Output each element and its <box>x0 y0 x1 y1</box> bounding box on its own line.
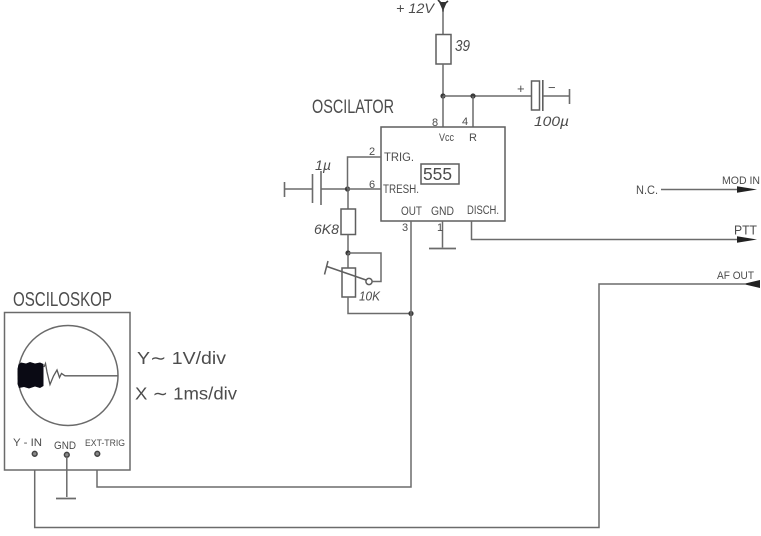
wire Vcc rail horizontal <box>443 95 531 97</box>
wire wiper to node2 loop <box>348 253 381 282</box>
wire node2 to pot <box>347 253 349 268</box>
oscilloscope screen circle <box>18 326 118 426</box>
svg-text:8: 8 <box>432 117 438 129</box>
node junction pot top <box>345 250 350 255</box>
resistor 6K8 <box>341 209 356 235</box>
svg-text:Vcc: Vcc <box>439 132 454 144</box>
svg-text:Y - IN: Y - IN <box>13 437 42 449</box>
svg-text:3: 3 <box>402 222 408 234</box>
svg-text:GND: GND <box>54 440 76 452</box>
wire scope GND <box>66 457 68 497</box>
node junction Vcc rail left <box>440 93 445 98</box>
svg-text:100µ: 100µ <box>534 113 569 129</box>
svg-text:Y∼ 1V/div: Y∼ 1V/div <box>137 348 226 368</box>
potentiometer wiper arrow <box>325 261 373 285</box>
svg-text:10K: 10K <box>359 289 381 304</box>
wire AF OUT to Y-IN <box>35 284 746 528</box>
terminal Y-IN <box>32 451 37 456</box>
svg-text:1µ: 1µ <box>315 157 331 173</box>
svg-text:AF OUT: AF OUT <box>717 270 754 282</box>
svg-text:TRESH.: TRESH. <box>383 184 419 196</box>
svg-text:6: 6 <box>369 179 375 191</box>
wire pin1 GND <box>442 221 444 248</box>
svg-text:GND: GND <box>431 206 454 218</box>
svg-text:OUT: OUT <box>401 206 422 218</box>
wire pin3 OUT down <box>410 221 412 314</box>
wire tresh <box>348 188 382 190</box>
svg-text:EXT-TRIG: EXT-TRIG <box>85 438 125 448</box>
oscilloscope box <box>5 313 131 471</box>
resistor 39 <box>436 35 451 65</box>
svg-text:DISCH.: DISCH. <box>467 205 499 217</box>
svg-text:−: − <box>548 80 556 95</box>
svg-text:X ∼ 1ms/div: X ∼ 1ms/div <box>135 384 237 404</box>
svg-text:39: 39 <box>455 38 470 55</box>
arrow PTT <box>737 236 757 243</box>
wire out to ext-trig <box>97 314 411 488</box>
svg-text:N.C.: N.C. <box>636 185 658 197</box>
wire supply to resistor <box>442 11 444 35</box>
svg-text:+ 12V: + 12V <box>396 0 436 16</box>
svg-text:OSCILOSKOP: OSCILOSKOP <box>13 289 112 311</box>
op IC 555 box U1 <box>381 127 505 221</box>
node junction thresh <box>345 186 350 191</box>
wire N.C. to MOD IN <box>661 189 743 191</box>
ground symbol IC <box>429 248 456 250</box>
potentiometer 10K body <box>342 268 356 297</box>
svg-text:R: R <box>469 132 477 144</box>
svg-text:PTT: PTT <box>734 224 757 238</box>
supply +12V arrow <box>438 0 448 12</box>
svg-text:+: + <box>517 81 525 96</box>
arrow AF OUT <box>743 280 760 288</box>
svg-text:555: 555 <box>423 164 452 184</box>
capacitor 100µ electrolytic <box>532 80 570 111</box>
wire pin 4 <box>472 96 474 127</box>
scope trace noise burst <box>18 362 118 389</box>
terminal GND <box>64 452 69 457</box>
terminal EXT-TRIG <box>95 451 100 456</box>
arrow MOD IN <box>737 186 757 193</box>
svg-text:MOD IN: MOD IN <box>722 175 760 187</box>
wire 6K8 to node2 <box>347 235 349 254</box>
node junction pin4 <box>470 93 475 98</box>
svg-text:2: 2 <box>369 146 375 158</box>
wire resistor to node Vcc <box>442 64 444 96</box>
wire pot bottom <box>348 297 411 314</box>
node junction out <box>408 311 413 316</box>
wire pin 8 <box>442 96 444 127</box>
wire trig loop <box>348 157 382 189</box>
capacitor 1µ <box>285 171 348 205</box>
svg-text:6K8: 6K8 <box>314 222 340 237</box>
wire node to 6K8 <box>347 189 349 209</box>
svg-text:1: 1 <box>437 222 443 234</box>
svg-text:4: 4 <box>462 116 468 128</box>
svg-text:OSCILATOR: OSCILATOR <box>312 97 394 118</box>
ground symbol scope <box>56 498 76 500</box>
wire pin7 DISCH to PTT <box>472 221 744 240</box>
svg-text:TRIG.: TRIG. <box>384 152 414 164</box>
inner 555 label box <box>421 164 459 184</box>
